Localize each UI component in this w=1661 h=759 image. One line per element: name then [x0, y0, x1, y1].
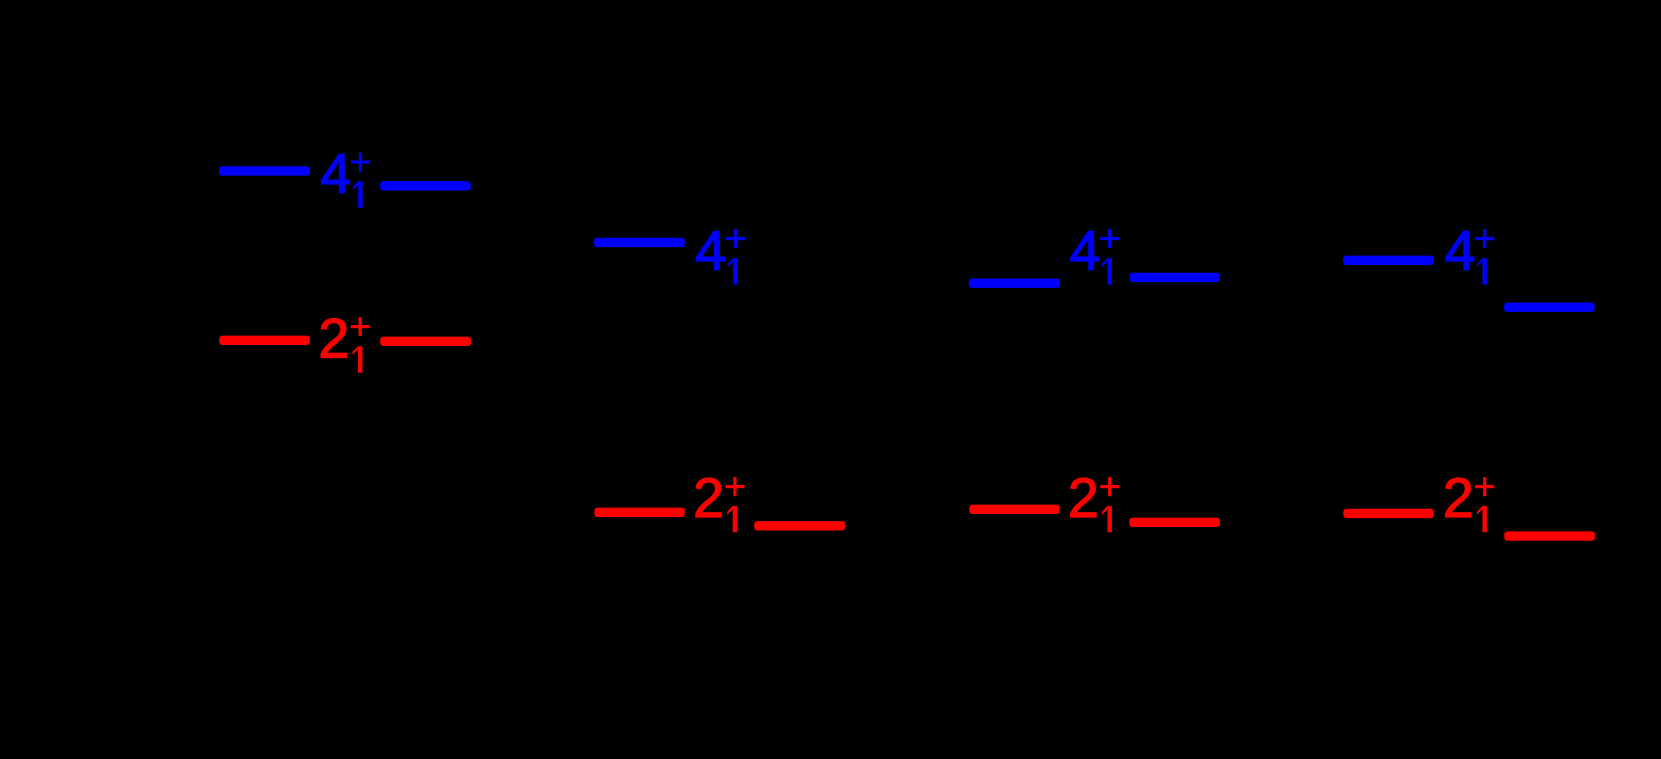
svg-text:+: +	[349, 142, 371, 184]
svg-text:4: 4	[320, 143, 351, 205]
svg-text:4: 4	[1070, 219, 1101, 281]
svg-text:+: +	[1474, 466, 1496, 508]
svg-text:2: 2	[1443, 467, 1474, 529]
svg-text:2: 2	[318, 307, 349, 369]
svg-text:+: +	[349, 307, 371, 349]
svg-text:2: 2	[693, 467, 724, 529]
svg-text:+: +	[1474, 219, 1496, 261]
svg-text:4: 4	[1445, 219, 1476, 281]
svg-text:4: 4	[695, 219, 726, 281]
svg-text:+: +	[724, 219, 746, 261]
svg-text:2: 2	[1068, 467, 1099, 529]
svg-text:+: +	[1099, 219, 1121, 261]
svg-text:+: +	[724, 466, 746, 508]
svg-text:+: +	[1099, 466, 1121, 508]
